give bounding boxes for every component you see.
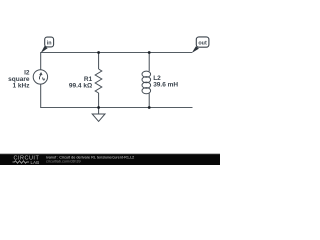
resistor R1 [95,53,102,108]
node flag in pointer [41,46,48,53]
svg-text:out: out [198,41,207,47]
node flag in [45,37,54,47]
wire bottom horizontal [41,107,193,109]
wire top horizontal [41,52,192,54]
current source I2 [33,70,47,84]
footer bar [0,154,220,165]
junction dot top R1 [97,51,100,54]
svg-text:in: in [47,40,52,46]
junction dot bottom L2 [148,106,151,109]
ground [92,108,105,122]
node flag out [196,37,209,47]
wire left vertical lower [40,84,42,108]
junction dot bottom R1 [97,106,100,109]
svg-text:39.6 mH: 39.6 mH [153,82,178,89]
logo resistor squiggle [13,161,30,164]
svg-text:circuitlab.com/c6h39: circuitlab.com/c6h39 [46,159,81,163]
svg-text:99.4 kΩ: 99.4 kΩ [69,82,92,89]
node flag out pointer [192,46,199,53]
svg-text:LAB: LAB [31,160,40,165]
svg-text:1 kHz: 1 kHz [13,83,31,90]
wire left vertical upper [40,52,42,70]
junction dot top L2 [148,51,151,54]
inductor L2 [142,53,151,108]
